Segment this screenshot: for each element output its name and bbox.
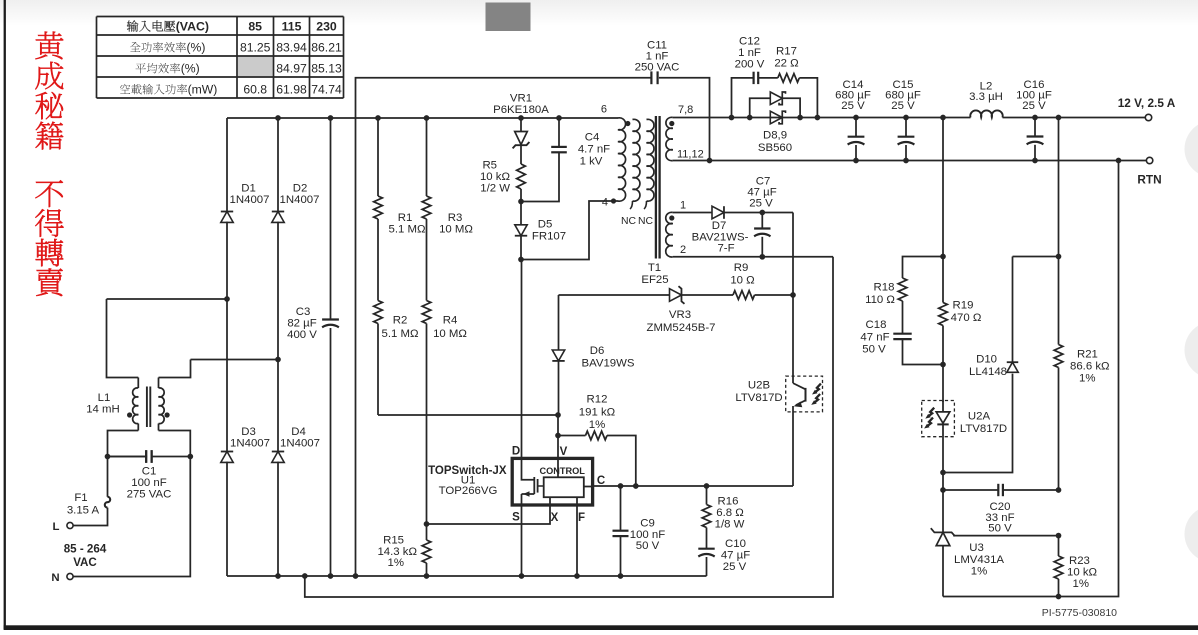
transformer shield winding NC 2 bbox=[647, 119, 654, 201]
L1 phase dots bbox=[127, 412, 132, 417]
feedback ground return to RTN bbox=[943, 161, 1119, 597]
svg-text:D: D bbox=[512, 446, 520, 458]
svg-text:EF25: EF25 bbox=[641, 274, 668, 286]
svg-text:47 nF: 47 nF bbox=[860, 332, 889, 344]
svg-text:6.8 Ω: 6.8 Ω bbox=[716, 507, 744, 519]
svg-text:C9: C9 bbox=[640, 518, 655, 530]
diode D10 LL4148 bbox=[943, 374, 1013, 473]
svg-text:D10: D10 bbox=[976, 354, 997, 366]
resistor R16 6.8 ohm 1/8W bbox=[706, 486, 708, 505]
C1 rail wire bbox=[108, 456, 191, 458]
wire N terminal to C1 right column bbox=[73, 457, 190, 577]
terminal N bbox=[67, 573, 73, 579]
resistor R4 10 Mohm bbox=[422, 301, 431, 324]
svg-text:R9: R9 bbox=[734, 262, 749, 274]
diode D4 1N4007 bbox=[277, 360, 279, 452]
svg-text:110 Ω: 110 Ω bbox=[865, 294, 895, 306]
svg-text:7,8: 7,8 bbox=[678, 104, 693, 116]
svg-text:82 µF: 82 µF bbox=[287, 318, 316, 330]
capacitor C4 4.7nF 1kV bbox=[521, 152, 559, 201]
wire V node into U1 bbox=[557, 436, 559, 459]
table row: full power efficiency bbox=[130, 42, 141, 52]
resistor R2 5.1 Mohm bbox=[374, 301, 383, 324]
resistor R15 14.3k 1% bbox=[426, 524, 428, 540]
svg-text:P6KE180A: P6KE180A bbox=[493, 104, 549, 116]
svg-text:VAC: VAC bbox=[73, 556, 97, 569]
svg-text:LTV817D: LTV817D bbox=[960, 423, 1007, 435]
svg-text:1N4007: 1N4007 bbox=[230, 194, 270, 206]
svg-text:25 V: 25 V bbox=[891, 100, 915, 112]
capacitor C1 100 nF 275 VAC bbox=[145, 450, 147, 463]
red watermark text column 2 bbox=[35, 180, 63, 207]
svg-text:D3: D3 bbox=[241, 426, 256, 438]
svg-text:1%: 1% bbox=[589, 419, 605, 431]
optocoupler U2B LTV817D (transistor) bbox=[786, 376, 823, 412]
secondary rail 7,8 to output bbox=[673, 117, 971, 119]
svg-text:D1: D1 bbox=[241, 183, 256, 195]
svg-text:4.7 nF: 4.7 nF bbox=[578, 144, 610, 156]
diode D6 BAV19WS bbox=[558, 295, 560, 350]
svg-text:2: 2 bbox=[680, 244, 686, 256]
U2A photon arrows bbox=[925, 408, 934, 419]
diode D7 BAV21WS-7-F bbox=[673, 212, 712, 214]
Y-capacitor C11 line bbox=[356, 78, 652, 576]
svg-text:25 V: 25 V bbox=[723, 561, 747, 573]
svg-text:X: X bbox=[551, 512, 559, 524]
wire D5 node to U1 drain bbox=[521, 260, 523, 459]
svg-text:VR3: VR3 bbox=[669, 309, 691, 321]
svg-text:1%: 1% bbox=[1079, 373, 1095, 385]
transformer shield winding NC 1 bbox=[633, 119, 640, 201]
svg-text:47 µF: 47 µF bbox=[721, 550, 750, 562]
svg-text:1 kV: 1 kV bbox=[580, 156, 603, 168]
shunt regulator U3 LMV431A 1% bbox=[942, 490, 944, 532]
terminal L bbox=[67, 522, 73, 528]
svg-text:1%: 1% bbox=[971, 566, 987, 578]
resistor R9 10 ohm bbox=[733, 291, 755, 300]
svg-text:250 VAC: 250 VAC bbox=[635, 62, 680, 74]
wire L1 to D2/D4 junction bbox=[191, 359, 279, 361]
svg-text:85: 85 bbox=[248, 20, 262, 34]
L1 left winding bbox=[108, 431, 139, 457]
resistor R23 10k 1% bbox=[1058, 536, 1060, 556]
primary phase dot bbox=[625, 121, 630, 126]
svg-text:R21: R21 bbox=[1077, 349, 1098, 361]
pin4 phase dot bbox=[611, 198, 616, 203]
svg-text:200 V: 200 V bbox=[735, 59, 765, 71]
svg-text:R1: R1 bbox=[398, 212, 413, 224]
svg-text:D8,9: D8,9 bbox=[763, 130, 787, 142]
L1 right winding bbox=[159, 431, 191, 457]
right edge floating circle 1 bbox=[1185, 121, 1198, 178]
svg-text:C3: C3 bbox=[296, 306, 311, 318]
bias return pin2 to primary ground bbox=[673, 256, 833, 258]
svg-text:R19: R19 bbox=[953, 300, 974, 312]
capacitor C20 33nF 50V bbox=[942, 473, 944, 491]
svg-text:74.74: 74.74 bbox=[311, 83, 342, 97]
U2B photon arrows bbox=[812, 384, 821, 395]
svg-text:D5: D5 bbox=[538, 219, 553, 231]
svg-text:10 Ω: 10 Ω bbox=[730, 275, 755, 287]
gray scanner box top bbox=[486, 3, 531, 32]
U1 V pin internal bbox=[557, 458, 559, 477]
svg-text:275 VAC: 275 VAC bbox=[127, 489, 172, 501]
right edge floating circle 3 bbox=[1185, 506, 1198, 563]
svg-text:R12: R12 bbox=[587, 394, 608, 406]
svg-text:R2: R2 bbox=[393, 315, 408, 327]
svg-text:D7: D7 bbox=[712, 220, 727, 232]
snubber R17 22 ohm bbox=[758, 77, 778, 79]
svg-text:5.1 MΩ: 5.1 MΩ bbox=[388, 224, 425, 236]
svg-text:R3: R3 bbox=[448, 212, 463, 224]
svg-text:1%: 1% bbox=[1073, 578, 1089, 590]
svg-text:81.25: 81.25 bbox=[240, 41, 271, 55]
svg-text:BAV19WS: BAV19WS bbox=[582, 358, 635, 370]
svg-text:61.98: 61.98 bbox=[276, 83, 307, 97]
svg-text:470 Ω: 470 Ω bbox=[951, 312, 982, 324]
inductor L2 3.3uH bbox=[970, 110, 1002, 117]
svg-text:115: 115 bbox=[282, 20, 302, 34]
left page border bar bbox=[4, 0, 6, 629]
svg-text:1/8 W: 1/8 W bbox=[715, 519, 745, 531]
svg-text:R16: R16 bbox=[718, 496, 739, 508]
L1 core lines bbox=[146, 387, 148, 428]
bias cap C7 47uF 25V bbox=[761, 213, 763, 229]
diode D1 1N4007 bbox=[226, 118, 228, 212]
svg-text:10 MΩ: 10 MΩ bbox=[439, 224, 473, 236]
svg-text:3.15 A: 3.15 A bbox=[67, 505, 100, 517]
svg-text:1%: 1% bbox=[388, 557, 404, 569]
svg-text:R18: R18 bbox=[874, 282, 895, 294]
table header row bbox=[127, 20, 138, 31]
svg-text:10 kΩ: 10 kΩ bbox=[1067, 567, 1098, 579]
resistor R1 5.1 Mohm bbox=[377, 118, 379, 196]
svg-text:1N4007: 1N4007 bbox=[280, 194, 320, 206]
resistor R21 86.6k 1% bbox=[1054, 345, 1063, 368]
svg-text:50 V: 50 V bbox=[862, 344, 886, 356]
svg-text:(VAC): (VAC) bbox=[176, 20, 209, 34]
svg-text:1: 1 bbox=[680, 200, 686, 212]
page background gradient top bbox=[0, 0, 1198, 26]
svg-text:S: S bbox=[512, 512, 520, 524]
svg-text:12 V, 2.5 A: 12 V, 2.5 A bbox=[1118, 96, 1176, 110]
svg-text:SB560: SB560 bbox=[758, 142, 792, 154]
svg-text:22 Ω: 22 Ω bbox=[774, 58, 799, 70]
svg-text:R5: R5 bbox=[482, 160, 497, 172]
svg-text:1 nF: 1 nF bbox=[738, 47, 761, 59]
svg-text:CONTROL: CONTROL bbox=[539, 466, 585, 476]
svg-text:LTV817D: LTV817D bbox=[735, 392, 782, 404]
primary bottom rail bbox=[227, 575, 707, 577]
svg-text:TOP266VG: TOP266VG bbox=[439, 485, 498, 497]
capacitor C11 1nF 250VAC bbox=[650, 71, 652, 84]
wire R2 bottom to V-pin node bbox=[378, 414, 558, 416]
svg-text:1N4007: 1N4007 bbox=[280, 438, 320, 450]
red watermark text column 1 bbox=[35, 32, 63, 60]
RTN rail 11,12 bbox=[673, 160, 1147, 162]
svg-text:(%): (%) bbox=[187, 41, 206, 55]
svg-text:R23: R23 bbox=[1069, 555, 1090, 567]
svg-text:25 V: 25 V bbox=[841, 100, 865, 112]
diode D2 1N4007 bbox=[277, 118, 279, 212]
svg-text:R17: R17 bbox=[776, 46, 797, 58]
svg-text:50 V: 50 V bbox=[636, 540, 660, 552]
bulk capacitor C3 82uF 400V bbox=[330, 118, 332, 320]
svg-text:NC: NC bbox=[621, 216, 637, 227]
capacitor C9 100nF 50V bbox=[620, 486, 622, 531]
svg-text:C1: C1 bbox=[142, 466, 157, 478]
svg-text:(%): (%) bbox=[181, 62, 200, 76]
svg-text:10 kΩ: 10 kΩ bbox=[480, 171, 511, 183]
svg-text:85 - 264: 85 - 264 bbox=[64, 543, 107, 556]
table row: average efficiency bbox=[136, 63, 146, 73]
resistor R12 191k 1% bbox=[557, 415, 559, 436]
svg-text:1N4007: 1N4007 bbox=[230, 438, 270, 450]
output cap C15 680uF 25V bbox=[905, 118, 907, 137]
svg-text:LMV431A: LMV431A bbox=[954, 554, 1004, 566]
output rectifier D8,9 SB560 (parallel pair) bbox=[750, 98, 771, 117]
svg-text:L1: L1 bbox=[98, 392, 111, 404]
svg-text:N: N bbox=[51, 572, 59, 584]
transformer T1 primary winding pins 6-4 bbox=[618, 118, 626, 201]
output sense divider column bbox=[1058, 118, 1060, 345]
svg-text:FR107: FR107 bbox=[532, 231, 566, 243]
resistor R3 10 Mohm bbox=[426, 118, 428, 196]
svg-text:D2: D2 bbox=[293, 183, 308, 195]
svg-text:60.8: 60.8 bbox=[243, 83, 267, 97]
secondary phase dot bbox=[669, 121, 674, 126]
svg-text:V: V bbox=[560, 446, 568, 458]
TVS VR1 P6KE180A bbox=[520, 118, 522, 132]
primary top rail bbox=[227, 117, 618, 119]
svg-text:86.6 kΩ: 86.6 kΩ bbox=[1070, 361, 1110, 373]
svg-text:D6: D6 bbox=[590, 345, 605, 357]
U1 X pin bbox=[427, 497, 551, 524]
svg-text:U3: U3 bbox=[969, 542, 984, 554]
capacitor C10 47uF 25V bbox=[698, 548, 714, 550]
svg-text:VR1: VR1 bbox=[510, 93, 532, 105]
svg-text:84.97: 84.97 bbox=[276, 62, 307, 76]
output cap C14 680uF 25V bbox=[855, 118, 857, 137]
U1 TOPSwitch-JX TOP266VG bbox=[512, 458, 592, 505]
R18 110 ohm + C18 47nF 50V branch bbox=[903, 257, 944, 279]
wire L1 to D1/D3 junction bbox=[107, 298, 228, 300]
svg-text:10 MΩ: 10 MΩ bbox=[433, 328, 467, 340]
svg-text:83.94: 83.94 bbox=[276, 41, 307, 55]
svg-text:C4: C4 bbox=[585, 132, 600, 144]
U1 C pin bbox=[584, 486, 593, 488]
svg-text:191 kΩ: 191 kΩ bbox=[579, 407, 616, 419]
svg-text:ZMM5245B-7: ZMM5245B-7 bbox=[646, 322, 715, 334]
svg-text:F1: F1 bbox=[74, 492, 87, 504]
diode D5 FR107 bbox=[520, 202, 522, 225]
right edge floating circle 2 bbox=[1185, 322, 1198, 379]
svg-text:3.3 µH: 3.3 µH bbox=[969, 91, 1003, 103]
table shaded cell bbox=[238, 57, 273, 76]
svg-text:R15: R15 bbox=[383, 535, 404, 547]
svg-text:C18: C18 bbox=[866, 319, 887, 331]
svg-text:1/2 W: 1/2 W bbox=[480, 183, 510, 195]
svg-text:50 V: 50 V bbox=[988, 523, 1012, 535]
wire D5 node to transformer pin 4 bbox=[521, 201, 618, 260]
sense branch from output rail bbox=[942, 118, 944, 257]
table row: no-load input power bbox=[120, 84, 130, 94]
svg-text:6: 6 bbox=[601, 104, 607, 116]
svg-text:PI-5775-030810: PI-5775-030810 bbox=[1042, 607, 1117, 619]
efficiency table bbox=[97, 17, 344, 99]
wire fuse to C1 rail bbox=[107, 457, 109, 497]
transformer bias winding pins 1-2 bbox=[666, 212, 673, 257]
svg-text:NC: NC bbox=[638, 216, 654, 227]
svg-text:100 nF: 100 nF bbox=[131, 477, 167, 489]
wire L terminal to fuse bbox=[73, 508, 107, 526]
svg-text:U2B: U2B bbox=[748, 380, 770, 392]
svg-text:F: F bbox=[578, 512, 585, 524]
svg-text:400 V: 400 V bbox=[287, 329, 317, 341]
svg-text:85.13: 85.13 bbox=[311, 62, 342, 76]
svg-text:(mW): (mW) bbox=[188, 83, 218, 97]
U3 reference wire bbox=[953, 535, 1058, 537]
svg-text:L: L bbox=[53, 521, 60, 533]
svg-text:86.21: 86.21 bbox=[311, 41, 342, 55]
RTN terminal bbox=[1146, 157, 1152, 163]
resistor R19 470 ohm bbox=[942, 257, 944, 303]
snubber C12 1nF 200V bbox=[732, 78, 754, 118]
zener VR3 ZMM5245B-7 bbox=[559, 294, 670, 296]
svg-text:14 mH: 14 mH bbox=[86, 404, 120, 416]
svg-text:RTN: RTN bbox=[1137, 173, 1161, 187]
svg-text:LL4148: LL4148 bbox=[969, 366, 1007, 378]
svg-text:C12: C12 bbox=[739, 36, 760, 48]
wire C7 node down to R9 junction bbox=[792, 213, 794, 296]
svg-text:230: 230 bbox=[316, 20, 337, 34]
svg-text:5.1 MΩ: 5.1 MΩ bbox=[381, 328, 418, 340]
svg-text:R4: R4 bbox=[443, 315, 458, 327]
bottom page border bar bbox=[4, 625, 1198, 630]
U1 internal MOSFET bbox=[522, 458, 535, 479]
svg-text:11,12: 11,12 bbox=[677, 149, 704, 161]
transformer secondary winding pins 7,8 - 11,12 bbox=[666, 117, 673, 160]
svg-text:U2A: U2A bbox=[968, 411, 991, 423]
svg-text:25 V: 25 V bbox=[1022, 100, 1046, 112]
output terminal 12V 2.5A bbox=[1145, 114, 1151, 120]
optocoupler U2A LTV817D (LED) bbox=[922, 401, 955, 437]
fuse F1 3.15 A bbox=[105, 497, 110, 508]
transformer core bbox=[655, 116, 657, 259]
svg-text:25 V: 25 V bbox=[749, 198, 773, 210]
svg-text:T1: T1 bbox=[648, 262, 661, 274]
U1 S pin bbox=[521, 505, 523, 576]
C pin wire bbox=[593, 485, 793, 487]
svg-text:4: 4 bbox=[602, 197, 608, 209]
resistor R5 10k 1/2W bbox=[517, 164, 526, 189]
svg-text:C10: C10 bbox=[725, 538, 746, 550]
output cap C16 100uF 25V bbox=[1034, 118, 1036, 137]
bias phase dot bbox=[669, 215, 674, 220]
svg-text:7-F: 7-F bbox=[717, 243, 734, 255]
svg-text:D4: D4 bbox=[291, 426, 306, 438]
diode D3 1N4007 bbox=[226, 299, 228, 452]
U1 F pin bbox=[576, 497, 578, 576]
